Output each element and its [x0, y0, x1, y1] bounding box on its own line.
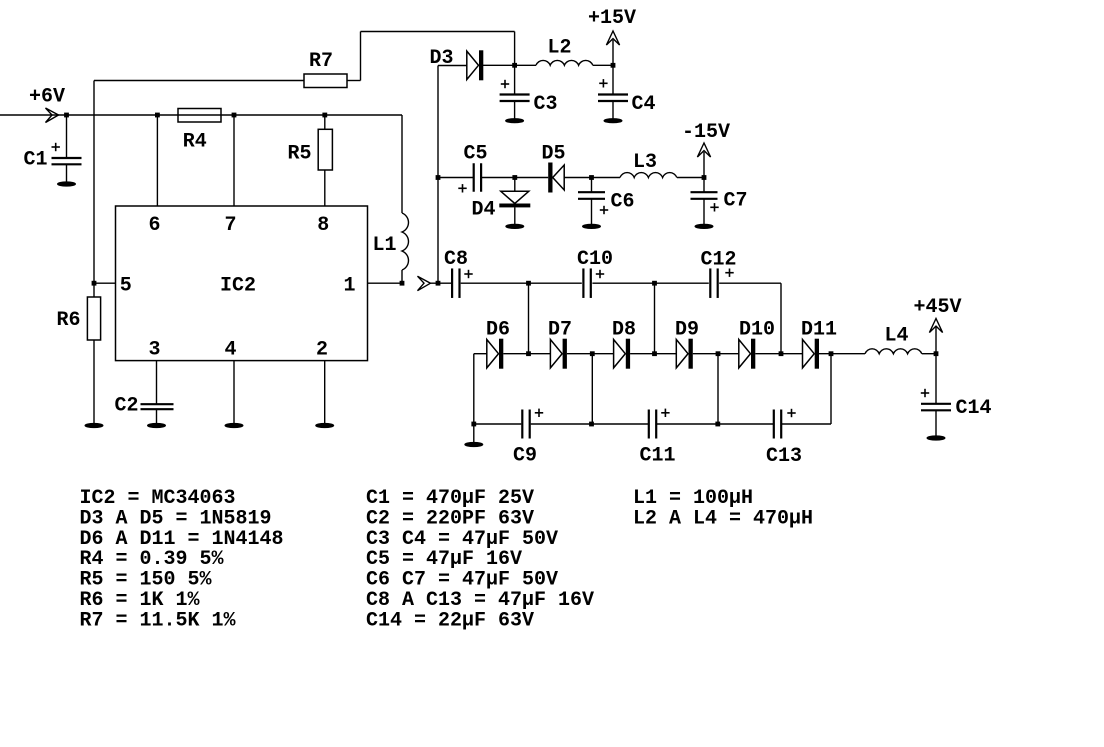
resistor R5	[318, 129, 332, 170]
wire pin 2 to ground	[324, 361, 326, 423]
label C9	[513, 445, 537, 468]
wire bottom rail to C9	[474, 423, 522, 425]
wire D5 to L3	[564, 177, 620, 179]
pin 5	[120, 274, 132, 297]
svg-text:L1: L1	[373, 234, 397, 257]
label C7	[724, 190, 748, 213]
resistor R6	[87, 297, 100, 340]
wire pin 5 to R6 node	[94, 282, 116, 284]
wire R7 left riser to pin5 node	[93, 81, 95, 284]
wire pin 1 to L1 node	[368, 282, 403, 284]
svg-text:+15V: +15V	[588, 7, 636, 30]
pin 3	[149, 338, 161, 361]
svg-text:4: 4	[225, 338, 237, 361]
wire D10-D11	[755, 353, 802, 355]
svg-text:C11: C11	[640, 445, 676, 468]
label D7	[548, 319, 572, 342]
value label legend col2 row6	[366, 589, 594, 612]
node L1 junction	[400, 281, 405, 286]
resistor R7	[304, 74, 347, 88]
label C3	[534, 93, 558, 116]
svg-text:D6: D6	[486, 319, 510, 342]
wire D3 cathode to L2	[483, 64, 536, 66]
wire C1 top	[66, 115, 68, 158]
capacitor C7	[691, 192, 719, 211]
svg-text:D7: D7	[548, 319, 572, 342]
value label legend col2 row7	[366, 609, 534, 632]
wire D6-D7	[503, 353, 550, 355]
svg-text:D11: D11	[801, 319, 837, 342]
wire riser C8C10 node to D6D7	[528, 283, 530, 354]
svg-text:8: 8	[317, 214, 329, 237]
label L4	[885, 325, 909, 348]
wire pin 6 to +6V rail	[156, 115, 158, 206]
wire C14 top	[935, 354, 937, 403]
svg-text:D8: D8	[612, 319, 636, 342]
wire R6 to ground	[93, 340, 95, 423]
wire ground stub chain	[473, 424, 475, 443]
value label legend col2 row5	[366, 569, 558, 592]
capacitor C11	[649, 409, 670, 439]
svg-text:C13: C13	[766, 445, 802, 468]
label D8	[612, 319, 636, 342]
svg-text:C12: C12	[701, 249, 737, 272]
wire D6 anode entry	[474, 353, 487, 355]
wire D9-D10	[693, 353, 739, 355]
ground C2	[148, 423, 166, 427]
label R4	[183, 130, 207, 153]
svg-text:1: 1	[344, 274, 356, 297]
svg-text:C6: C6	[611, 191, 635, 214]
pin 8	[317, 214, 329, 237]
label D6	[486, 319, 510, 342]
ground pin2	[316, 423, 334, 427]
wire pin 7 to +6V rail	[233, 115, 235, 206]
wire C7 top	[703, 178, 705, 192]
diode D8	[614, 339, 631, 369]
label R6	[57, 309, 81, 332]
label D9	[675, 319, 699, 342]
label D5	[542, 143, 566, 166]
value label legend col1 row7	[80, 609, 237, 632]
diode D6	[487, 339, 504, 369]
net label +6V	[29, 86, 65, 109]
svg-text:C8: C8	[444, 248, 468, 271]
wire C13 to D11 node	[782, 354, 831, 424]
wire riser D9D10 to C11C13	[717, 354, 719, 424]
diode D3	[467, 50, 484, 80]
node ground rail left junction	[471, 422, 476, 427]
label C4	[632, 93, 656, 116]
capacitor C5	[458, 163, 481, 192]
value label legend col3 row1	[633, 487, 753, 510]
capacitor C9	[522, 409, 543, 439]
ground D4	[506, 224, 524, 228]
svg-text:3: 3	[149, 338, 161, 361]
wire pin 4 to ground	[233, 361, 235, 423]
value label legend col1 row6	[80, 589, 201, 612]
ground R6	[85, 423, 103, 427]
wire R7 right to top rail	[347, 32, 515, 81]
wire riser C10C12 node to D8D9	[654, 283, 656, 354]
power arrow +45V	[929, 319, 942, 333]
value label legend col1 row5	[80, 569, 213, 592]
ground pin4	[225, 423, 243, 427]
svg-text:L2: L2	[548, 37, 572, 60]
svg-text:C7: C7	[724, 190, 748, 213]
node pin7 junction	[232, 113, 237, 118]
svg-text:5: 5	[120, 274, 132, 297]
pin 6	[149, 214, 161, 237]
wire L1 top drop	[401, 115, 403, 213]
ground C1	[58, 164, 76, 186]
diode D9	[676, 339, 693, 369]
node C10-C12 junction	[652, 281, 657, 286]
pin 2	[316, 338, 328, 361]
wire L1 bottom stub	[401, 270, 403, 283]
capacitor C13	[774, 409, 796, 439]
resistor R4	[178, 109, 221, 123]
diode D4	[499, 191, 530, 207]
wire C14 to ground	[935, 411, 937, 437]
svg-text:+6V: +6V	[29, 86, 65, 109]
net label +15V	[588, 7, 636, 30]
label R5	[288, 143, 312, 166]
svg-text:R6: R6	[57, 309, 81, 332]
capacitor C14	[921, 389, 951, 411]
wire C6 top	[591, 178, 593, 192]
wire R6 top stub	[93, 283, 95, 297]
label C11	[640, 445, 676, 468]
diode D10	[739, 339, 756, 369]
value label legend col1 row2	[80, 507, 272, 530]
wire R5 top	[324, 115, 326, 129]
node D3 cathode junction	[512, 63, 517, 68]
wire D4 to ground	[514, 207, 516, 224]
wire left chain drop to ground rail	[473, 354, 475, 424]
node D6-D7 junction	[526, 351, 531, 356]
output arrow pin1	[418, 276, 431, 291]
node +45V junction	[934, 351, 939, 356]
capacitor C1	[52, 143, 82, 165]
wire C8 to C10	[461, 282, 582, 284]
node D4 junction	[512, 175, 517, 180]
label D3	[430, 47, 454, 70]
label C8	[444, 248, 468, 271]
svg-text:L2 A L4 = 470µH: L2 A L4 = 470µH	[633, 507, 813, 530]
wire -15V riser	[703, 152, 705, 178]
svg-text:C10: C10	[577, 248, 613, 271]
value label legend col2 row3	[366, 528, 558, 551]
node pin6 junction	[155, 113, 160, 118]
diode D11	[803, 339, 820, 369]
label IC2	[220, 274, 256, 297]
wire C10 to C12	[592, 282, 708, 284]
capacitor C6	[578, 192, 608, 214]
svg-text:D3: D3	[430, 47, 454, 70]
wire R5 bottom to pin 8	[324, 170, 326, 206]
svg-text:C5: C5	[464, 143, 488, 166]
label C12	[701, 249, 737, 272]
svg-text:C9: C9	[513, 445, 537, 468]
wire R7 left horizontal	[94, 80, 304, 82]
svg-text:R7 = 11.5K 1%: R7 = 11.5K 1%	[80, 609, 237, 632]
inductor L2	[536, 60, 593, 65]
wire C3 to ground	[514, 101, 516, 119]
ground C4	[604, 119, 622, 123]
svg-text:R7: R7	[309, 50, 333, 73]
op-amp IC2 box	[116, 206, 368, 361]
wire C5 to D5	[481, 177, 548, 179]
capacitor C12	[710, 268, 733, 298]
wire C9 to C11	[531, 423, 649, 425]
node D8-D9 junction	[652, 351, 657, 356]
value label legend col2 row2	[366, 507, 534, 530]
capacitor C10	[583, 268, 604, 298]
node D11 output junction	[829, 351, 834, 356]
wire C2 to ground	[156, 410, 158, 424]
net label +45V	[914, 296, 962, 319]
wire arrow tip to C8	[430, 282, 451, 284]
label D4	[472, 199, 496, 222]
svg-text:C14 = 22µF 63V: C14 = 22µF 63V	[366, 609, 534, 632]
wire C12 to D10-D11 junction	[719, 283, 781, 354]
node C8-C10 junction	[526, 281, 531, 286]
wire D11 to L4	[819, 353, 865, 355]
svg-text:7: 7	[225, 214, 237, 237]
wire pin 3 to C2	[156, 361, 158, 404]
label C6	[611, 191, 635, 214]
input arrow +6V	[46, 108, 59, 123]
svg-text:IC2: IC2	[220, 274, 256, 297]
label C14	[956, 397, 992, 420]
inductor L3	[620, 173, 677, 178]
ground C3	[506, 119, 524, 123]
label R7	[309, 50, 333, 73]
pin 1	[344, 274, 356, 297]
ground diode chain	[465, 442, 483, 446]
wire C7 to ground	[703, 199, 705, 225]
svg-text:L3: L3	[633, 151, 657, 174]
wire +15V riser	[612, 40, 614, 65]
node C5 riser junction	[436, 175, 441, 180]
svg-text:C14: C14	[956, 397, 992, 420]
label L3	[633, 151, 657, 174]
label C1	[24, 149, 48, 172]
node pin5 junction	[92, 281, 97, 286]
wire C4 to ground	[612, 101, 614, 119]
value label legend col1 row1	[80, 487, 236, 510]
wire riser D7D8 to C9C11	[591, 354, 593, 424]
svg-text:L4: L4	[885, 325, 909, 348]
pin 4	[225, 338, 237, 361]
wire D7-D8	[567, 353, 614, 355]
node C1 junction	[64, 113, 69, 118]
svg-text:C4: C4	[632, 93, 656, 116]
ground C14	[927, 436, 945, 440]
svg-text:R4: R4	[183, 130, 207, 153]
power arrow -15V	[697, 143, 710, 157]
node R5 junction	[322, 113, 327, 118]
svg-text:+45V: +45V	[914, 296, 962, 319]
svg-text:2: 2	[316, 338, 328, 361]
node +15V junction	[611, 63, 616, 68]
svg-text:R5: R5	[288, 143, 312, 166]
wire C6 to ground	[591, 199, 593, 225]
label C2	[115, 395, 139, 418]
wire C5 left	[438, 177, 473, 179]
capacitor C4	[598, 79, 628, 101]
svg-text:-15V: -15V	[682, 121, 730, 144]
wire L2 to +15V node	[593, 64, 613, 66]
wire +6V input rail	[0, 114, 402, 116]
label C13	[766, 445, 802, 468]
capacitor C8	[452, 268, 473, 298]
diode D5	[548, 163, 564, 193]
svg-text:C3: C3	[534, 93, 558, 116]
wire C3 top	[514, 65, 516, 94]
label C10	[577, 248, 613, 271]
value label legend col3 row2	[633, 507, 813, 530]
value label legend col2 row1	[366, 487, 534, 510]
node D7-D8 junction	[590, 351, 595, 356]
svg-text:C2: C2	[115, 395, 139, 418]
value label legend col1 row4	[80, 548, 225, 571]
pin 7	[225, 214, 237, 237]
value label legend col2 row4	[366, 548, 522, 571]
node D3 riser junction	[436, 281, 441, 286]
wire D8-D9	[630, 353, 676, 355]
ground C7	[695, 224, 713, 228]
wire L3 to -15V node	[677, 177, 704, 179]
wire C4 top	[612, 65, 614, 94]
svg-text:D5: D5	[542, 143, 566, 166]
node D10-D11 junction	[779, 351, 784, 356]
label L1	[373, 234, 397, 257]
svg-text:D4: D4	[472, 199, 496, 222]
inductor L4	[865, 349, 922, 354]
wire +45V riser	[935, 327, 937, 354]
node C11-C13 junction	[715, 422, 720, 427]
svg-text:C1: C1	[24, 149, 48, 172]
node C6 junction	[589, 175, 594, 180]
wire D4 top	[514, 178, 516, 192]
value label legend col1 row3	[80, 528, 284, 551]
label C5	[464, 143, 488, 166]
svg-text:D9: D9	[675, 319, 699, 342]
wire D3 anode riser	[438, 66, 467, 284]
svg-text:6: 6	[149, 214, 161, 237]
wire L4 to +45V node	[922, 353, 936, 355]
net label -15V	[682, 121, 730, 144]
ground C6	[583, 224, 601, 228]
node C9-C11 junction	[589, 422, 594, 427]
node -15V junction	[702, 175, 707, 180]
label D10	[739, 319, 775, 342]
label L2	[548, 37, 572, 60]
diode D7	[550, 339, 566, 369]
inductor L1	[402, 213, 408, 270]
label D11	[801, 319, 837, 342]
power arrow +15V	[606, 31, 619, 45]
capacitor C2	[141, 404, 174, 409]
wire C11 to C13	[657, 423, 774, 425]
node D9-D10 junction	[716, 351, 721, 356]
capacitor C3	[500, 80, 530, 101]
svg-text:D10: D10	[739, 319, 775, 342]
